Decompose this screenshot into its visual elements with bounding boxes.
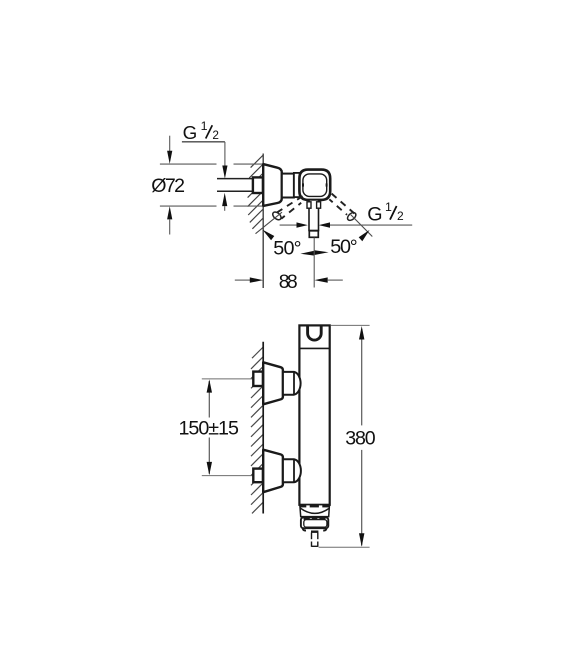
svg-text:50°: 50°: [330, 236, 357, 258]
svg-text:50°: 50°: [273, 237, 301, 259]
svg-text:150±15: 150±15: [179, 418, 239, 440]
svg-text:1: 1: [385, 200, 392, 214]
svg-text:88: 88: [279, 271, 298, 293]
svg-text:G: G: [183, 122, 198, 143]
svg-text:1: 1: [201, 119, 208, 133]
svg-text:G: G: [367, 204, 382, 226]
svg-text:2: 2: [212, 128, 219, 142]
svg-text:Ø72: Ø72: [151, 175, 185, 197]
svg-text:2: 2: [397, 209, 404, 223]
svg-text:380: 380: [345, 427, 375, 449]
